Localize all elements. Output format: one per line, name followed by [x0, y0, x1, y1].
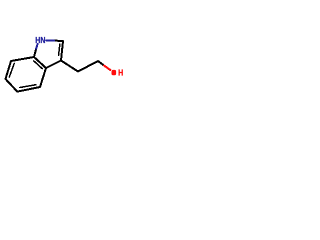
bond C7=C6 inner line — [9, 64, 14, 78]
bond CH2-O red half — [104, 66, 110, 71]
atom label O "OH" — [112, 68, 124, 78]
atom label N1 "HN" — [35, 35, 46, 45]
bond C7=C6 main line — [6, 61, 12, 79]
bond C3-C3a — [46, 61, 61, 69]
bond N1-C2 blue half — [46, 39, 54, 41]
bond C2=C3 main line — [61, 41, 63, 61]
bond C2=C3 inner line — [59, 44, 60, 55]
bond N1-C2 black half — [54, 40, 63, 42]
bond C5=C4 main line — [17, 87, 40, 92]
bond N1-C7a black half — [34, 49, 36, 58]
svg-text:N: N — [40, 35, 45, 45]
bond C5=C4 inner line — [20, 85, 36, 88]
bond C7a-C7 — [11, 57, 34, 61]
bond C3a=C7a inner line — [34, 61, 42, 69]
bond CH2-O black half — [98, 61, 104, 66]
bond C4-C3a — [40, 68, 46, 87]
bond C3a=C7a main line (ring fusion) — [34, 57, 46, 68]
bond CH2-CH2 — [78, 61, 98, 72]
bond C6-C5 — [6, 79, 18, 92]
svg-text:H: H — [118, 68, 123, 78]
bond N1-C7a blue half — [36, 44, 37, 49]
bond C3-CH2 — [61, 61, 78, 72]
